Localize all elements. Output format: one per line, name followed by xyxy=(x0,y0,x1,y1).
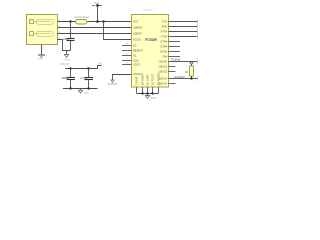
svg-text:100nF: 100nF xyxy=(61,76,69,80)
IC bottom pin GND1 stub xyxy=(136,87,138,94)
svg-text:26 TEST: 26 TEST xyxy=(151,74,155,86)
svg-text:USBDM: USBDM xyxy=(133,27,142,30)
wire VCCIO: tap down and right to IC pin VCCIO xyxy=(104,22,132,40)
svg-text:RXD: RXD xyxy=(162,26,167,29)
junction Vcc on VBUS wire xyxy=(96,20,99,23)
svg-text:CBUS1: CBUS1 xyxy=(159,66,168,69)
svg-text:Ferrite Bead: Ferrite Bead xyxy=(74,15,89,19)
svg-text:OSCO: OSCO xyxy=(133,64,140,67)
junction TEST xyxy=(151,92,153,94)
IC right pin DCD# stub xyxy=(169,51,181,53)
IC bottom pin TEST stub xyxy=(152,87,154,94)
svg-text:CBUS0: CBUS0 xyxy=(159,61,168,64)
svg-text:3V3OUT: 3V3OUT xyxy=(60,63,70,66)
IC right pin RI# stub xyxy=(169,56,181,58)
svg-text:RTS#: RTS# xyxy=(161,31,168,34)
ground symbol under IC xyxy=(145,94,156,100)
IC left pin NC1 stub xyxy=(122,45,132,47)
wire USBDM: USB pin2 to IC xyxy=(58,27,132,29)
IC right pin DTR# stub xyxy=(169,41,181,43)
capacitor C2 value 100nF xyxy=(61,69,75,89)
resistor R1 LED pullup xyxy=(190,62,194,79)
svg-text:NC: NC xyxy=(133,55,137,58)
IC right wire RXD xyxy=(169,26,198,28)
IC bottom pin GND2 stub xyxy=(142,87,144,94)
ground symbol under USB connector xyxy=(37,55,45,60)
svg-text:TXD: TXD xyxy=(162,21,167,24)
svg-text:1K: 1K xyxy=(185,70,189,74)
svg-text:21 GND: 21 GND xyxy=(146,74,150,86)
svg-text:RXLED#: RXLED# xyxy=(175,75,186,79)
ground symbol under C1 xyxy=(64,51,70,62)
svg-text:VCC: VCC xyxy=(133,21,138,24)
net label VCC3V3 arrow xyxy=(108,80,118,86)
svg-text:DTR#: DTR# xyxy=(160,41,167,44)
capacitor C1 value 100n xyxy=(63,22,74,51)
wire 3V3 cap rail bottom xyxy=(63,88,98,90)
wire 3V3 cap rail top xyxy=(65,66,102,69)
svg-text:TXLED#: TXLED# xyxy=(171,58,181,62)
wire ground rail under IC xyxy=(137,93,159,95)
junction C3 top xyxy=(87,67,89,69)
capacitor C3 value 4.7uF xyxy=(80,69,93,89)
IC bottom pin AGND stub xyxy=(158,87,160,94)
IC U1 FT232R body xyxy=(132,15,169,88)
junction GND2 xyxy=(141,92,143,94)
junction GND3 xyxy=(146,92,148,94)
svg-text:DCD#: DCD# xyxy=(160,51,167,54)
svg-text:CTS#: CTS# xyxy=(161,36,168,39)
svg-text:RESET#: RESET# xyxy=(133,50,143,53)
IC right pin DSR# stub xyxy=(169,46,181,48)
ferrite bead L1 xyxy=(76,20,88,25)
junction C2 top xyxy=(69,67,71,69)
off-page tick at wire end y=36.5 xyxy=(197,34,199,38)
svg-text:VCCIO: VCCIO xyxy=(133,39,141,42)
junction C3 bottom xyxy=(87,87,89,89)
svg-text:FT232RL: FT232RL xyxy=(143,9,154,12)
off-page tick at wire end y=61.5 xyxy=(197,59,199,63)
svg-text:RI#: RI# xyxy=(163,56,168,59)
svg-text:VCC3V3: VCC3V3 xyxy=(108,83,118,86)
IC left pin RESET# stub xyxy=(122,50,132,52)
svg-text:100n: 100n xyxy=(63,37,70,41)
svg-text:18 GND: 18 GND xyxy=(141,74,145,86)
IC left pin OSCI stub xyxy=(122,60,132,62)
IC right wire RTS# xyxy=(169,31,198,33)
svg-text:3V3: 3V3 xyxy=(98,63,103,66)
svg-text:7 GND: 7 GND xyxy=(135,75,139,85)
IC bottom pin GND3 stub xyxy=(147,87,149,94)
svg-text:25 AGND: 25 AGND xyxy=(157,72,161,86)
svg-text:DSR#: DSR# xyxy=(160,46,167,49)
junction VCCIO tap xyxy=(102,20,104,22)
svg-text:OSCI: OSCI xyxy=(133,60,139,63)
USB connector J1 xyxy=(27,15,58,45)
IC right wire CBUS0 net TXLED# xyxy=(169,61,198,63)
wire USB GND pin4 down to cap ground xyxy=(58,40,71,51)
IC left pin NC2 stub xyxy=(122,55,132,57)
junction resistor to RXLED wire xyxy=(190,77,192,79)
power symbol Vcc xyxy=(92,1,102,22)
svg-text:GND: GND xyxy=(84,93,89,95)
wire USB shield down xyxy=(41,45,43,55)
off-page tick at wire end y=21.5 xyxy=(197,19,199,23)
svg-text:FT232R: FT232R xyxy=(145,38,157,42)
off-page tick at wire end y=78.5 xyxy=(197,76,199,80)
svg-text:GND: GND xyxy=(37,57,43,60)
IC right pin CBUS1 stub xyxy=(169,66,176,68)
off-page tick at wire end y=26.5 xyxy=(197,24,199,28)
wire USBDP: USB pin3 to IC xyxy=(58,33,132,35)
svg-text:GND: GND xyxy=(151,97,157,100)
junction at bead input node xyxy=(69,20,71,22)
off-page tick at wire end y=31.5 xyxy=(197,29,199,33)
wire 3V3OUT from IC down to net label xyxy=(113,75,132,81)
svg-text:Vcc: Vcc xyxy=(94,1,100,5)
IC left pin OSCO stub xyxy=(122,64,132,66)
IC right wire CBUS3 net RXLED# xyxy=(169,78,198,80)
IC right wire TXD xyxy=(169,21,198,23)
svg-text:GND: GND xyxy=(64,58,70,61)
svg-text:NC: NC xyxy=(133,45,137,48)
wire VBUS: USB pin1 to ferrite bead and IC VCC xyxy=(58,21,132,23)
svg-text:4.7uF: 4.7uF xyxy=(80,76,87,80)
IC right wire CTS# xyxy=(169,36,198,38)
ground symbol under caps xyxy=(78,89,89,95)
svg-text:USBDP: USBDP xyxy=(133,33,142,36)
IC right pin CBUS2 stub xyxy=(169,71,176,73)
junction C2 bottom xyxy=(69,87,71,89)
IC right pin CBUS4 stub xyxy=(169,83,176,85)
